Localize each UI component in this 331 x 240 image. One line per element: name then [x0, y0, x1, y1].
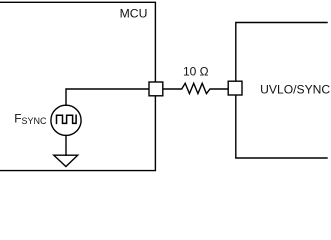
wire: FSYNC source to MCU pin — [66, 89, 150, 105]
MCU block outline — [0, 2, 155, 170]
UVLO/SYNC block outline — [236, 23, 327, 159]
wire: FSYNC source to ground — [65, 135, 67, 155]
svg-text:MCU: MCU — [120, 7, 148, 21]
square-wave symbol — [57, 115, 77, 123]
ground — [54, 155, 78, 166]
pin square on UVLO/SYNC left edge — [228, 81, 242, 95]
svg-text:10 Ω: 10 Ω — [183, 65, 209, 79]
pin square on MCU right edge — [149, 82, 163, 96]
resistor R1 10 ohm — [163, 83, 228, 93]
FSYNC source circle — [51, 105, 81, 135]
svg-text:UVLO/SYNC: UVLO/SYNC — [260, 83, 330, 97]
svg-text:FSYNC: FSYNC — [14, 111, 47, 126]
